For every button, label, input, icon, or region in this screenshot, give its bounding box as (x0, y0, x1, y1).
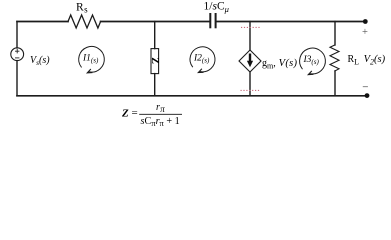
dependent source gm diamond (239, 50, 261, 72)
wire top-middle segment (101, 21, 209, 23)
node dot bottom right (365, 93, 370, 98)
mesh current I3 arrow (300, 48, 326, 74)
wire gm upper (249, 22, 251, 51)
resistor RL (330, 45, 339, 71)
node dot top right (363, 19, 368, 24)
wire RL lower (334, 71, 336, 96)
arrowhead I2 (198, 69, 203, 73)
wire gm lower (249, 72, 251, 96)
plus inside source (15, 49, 19, 58)
impedance Z box (151, 49, 159, 74)
svg-text:Z: Z (121, 108, 129, 120)
equation Z = rpi/(sCpi rpi + 1) (121, 102, 182, 128)
wire bottom (17, 95, 367, 97)
red dotted annotation lower (241, 89, 261, 91)
wire Z lower (154, 74, 156, 96)
capacitor C-mu (210, 14, 215, 27)
resistor Rs (68, 15, 101, 28)
svg-text:Vs(s): Vs(s) (30, 55, 50, 67)
wire top-left segment (17, 21, 68, 23)
arrow inside gm diamond (247, 54, 253, 68)
wire left lower (16, 61, 18, 96)
svg-text:sCπrπ + 1: sCπrπ + 1 (141, 116, 180, 128)
svg-text:=: = (132, 107, 138, 119)
arrowhead I1 (87, 69, 92, 73)
minus inside source (15, 57, 19, 59)
svg-text:+: + (362, 27, 368, 38)
mesh current I1 arrow (79, 47, 105, 73)
svg-text:V2(s): V2(s) (364, 54, 386, 67)
svg-text:Z: Z (149, 57, 160, 64)
arrowhead I3 (308, 71, 313, 75)
wire left upper (16, 22, 18, 48)
svg-text:rπ: rπ (156, 102, 165, 114)
wire top-right segment (217, 21, 365, 23)
red dotted annotation upper (241, 26, 260, 28)
svg-text:−: − (362, 81, 368, 93)
wire RL upper (334, 22, 336, 46)
wire Z upper (154, 22, 156, 49)
source Vs circle (11, 48, 24, 61)
mesh current I2 arrow (190, 47, 215, 72)
